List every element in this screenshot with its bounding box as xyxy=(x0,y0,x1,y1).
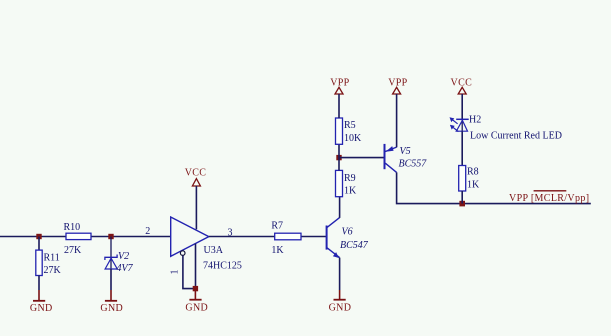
svg-text:Low Current Red LED: Low Current Red LED xyxy=(470,131,562,142)
node at R11 xyxy=(36,234,41,239)
svg-text:27K: 27K xyxy=(44,265,62,276)
ground under V2 xyxy=(100,269,123,314)
power VPP above V5 emitter xyxy=(388,77,407,147)
power VCC above H2 xyxy=(451,77,473,119)
wire V6 collector up to R9 xyxy=(339,197,341,218)
resistor R10 xyxy=(64,222,92,256)
svg-text:V5: V5 xyxy=(400,146,411,157)
pin 1 enable bubble and wire xyxy=(170,251,196,289)
svg-text:VPP: VPP xyxy=(388,77,407,88)
ground under V6 xyxy=(329,290,352,314)
svg-text:1K: 1K xyxy=(467,180,480,191)
svg-text:VCC: VCC xyxy=(185,168,207,179)
resistor R5 xyxy=(336,118,363,170)
svg-text:4V7: 4V7 xyxy=(117,263,134,274)
wire R8 to output net xyxy=(461,191,463,204)
U3A ground pin wire xyxy=(195,244,197,289)
svg-text:27K: 27K xyxy=(64,245,82,256)
transistor V6 BC547 xyxy=(327,218,369,258)
svg-text:R10: R10 xyxy=(64,222,81,233)
svg-text:H2: H2 xyxy=(469,114,481,125)
svg-text:V2: V2 xyxy=(118,251,129,262)
zener diode V2 xyxy=(105,237,134,275)
node at V2 xyxy=(108,234,113,239)
svg-text:GND: GND xyxy=(185,303,208,314)
svg-text:VCC: VCC xyxy=(451,77,473,88)
svg-text:VPP: VPP xyxy=(330,77,349,88)
LED H2 xyxy=(450,114,562,141)
svg-text:R7: R7 xyxy=(271,221,283,232)
svg-text:R11: R11 xyxy=(44,253,60,264)
power VCC above U3A xyxy=(185,168,207,230)
svg-text:BC547: BC547 xyxy=(340,240,369,251)
svg-text:V6: V6 xyxy=(342,226,353,237)
svg-text:1K: 1K xyxy=(344,186,357,197)
svg-text:GND: GND xyxy=(30,303,53,314)
wire node to V5 base xyxy=(339,157,384,159)
wire input net xyxy=(0,236,171,238)
node at U3A ground xyxy=(193,286,198,291)
resistor R8 xyxy=(459,166,480,192)
svg-text:VPP [MCLR/Vpp]: VPP [MCLR/Vpp] xyxy=(509,193,589,204)
wire U3A output to V6 base xyxy=(209,236,327,238)
transistor V5 BC557 xyxy=(385,144,428,173)
svg-text:GND: GND xyxy=(329,303,352,314)
svg-text:R8: R8 xyxy=(467,167,479,178)
wire H2 to R8 xyxy=(461,131,463,165)
svg-text:R5: R5 xyxy=(344,120,356,131)
svg-text:GND: GND xyxy=(100,303,123,314)
net label VPP [MCLR/Vpp] xyxy=(509,191,589,204)
wire V6 emitter down xyxy=(339,258,341,290)
svg-text:1K: 1K xyxy=(271,245,284,256)
svg-text:10K: 10K xyxy=(344,133,362,144)
wire V5 collector to output net xyxy=(397,172,591,203)
node R5 R9 V5 base xyxy=(336,155,341,160)
svg-text:74HC125: 74HC125 xyxy=(203,260,242,271)
pin 3 label xyxy=(228,228,233,239)
power VPP above R5 xyxy=(330,77,349,118)
svg-text:BC557: BC557 xyxy=(399,159,428,170)
svg-text:R9: R9 xyxy=(344,173,356,184)
resistor R11 xyxy=(36,237,62,291)
svg-text:2: 2 xyxy=(145,226,150,237)
ground under R11 xyxy=(30,290,53,314)
resistor R9 xyxy=(336,170,358,196)
ground under U3A xyxy=(185,289,208,314)
node output at R8 xyxy=(459,201,465,207)
op-amp U3A buffer 74HC125 xyxy=(171,217,242,271)
resistor R7 xyxy=(271,221,301,256)
svg-text:U3A: U3A xyxy=(204,245,224,256)
svg-text:1: 1 xyxy=(170,270,181,275)
pin 2 label xyxy=(145,226,150,237)
